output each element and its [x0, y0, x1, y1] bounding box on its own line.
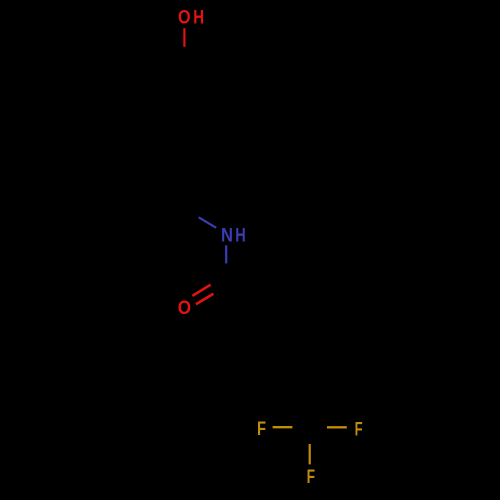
svg-text:F: F [355, 419, 363, 440]
svg-text:O: O [178, 298, 191, 319]
svg-text:O: O [178, 8, 191, 29]
svg-text:H: H [193, 8, 204, 29]
svg-text:F: F [257, 419, 266, 440]
svg-text:H: H [235, 225, 246, 246]
svg-text:N: N [221, 225, 233, 246]
svg-text:F: F [307, 467, 316, 488]
